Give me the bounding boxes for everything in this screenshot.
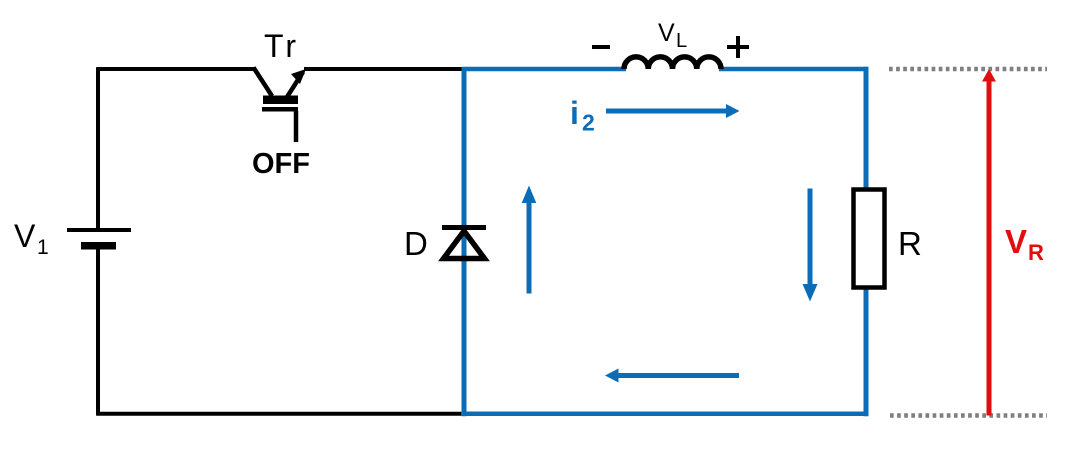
arrow up (diode branch current) shaft (527, 201, 532, 294)
transistor Tr emitter arrowhead (291, 69, 306, 84)
arrow i2 right head (726, 104, 740, 118)
wire: left vertical upper (battery top lead) (96, 68, 100, 229)
arrow VR red shaft (987, 79, 992, 416)
plus sign vertical (736, 36, 740, 58)
transistor Tr lower gate bar (262, 107, 298, 112)
svg-text:V: V (14, 218, 36, 254)
transistor Tr thick base bar (263, 96, 298, 105)
plus sign horizontal (727, 45, 749, 49)
svg-text:V: V (1005, 223, 1027, 260)
svg-text:D: D (404, 225, 428, 262)
wire: blue top from inductor to right corner (719, 67, 868, 72)
transistor Tr gate lead down (294, 111, 299, 142)
dotted gray line bottom (890, 413, 1047, 418)
battery V1 long plate (67, 228, 131, 232)
svg-text:R: R (1028, 240, 1044, 265)
svg-text:R: R (898, 225, 922, 262)
diode D cathode bar (442, 225, 486, 230)
dotted gray line top (889, 67, 1047, 72)
svg-text:2: 2 (582, 110, 595, 136)
wire: blue top from node to inductor (462, 67, 626, 72)
wire: blue middle vertical (diode branch) (462, 67, 467, 416)
arrow up head (522, 186, 537, 204)
svg-text:V: V (658, 19, 675, 47)
arrow i2 right shaft (606, 109, 727, 114)
svg-text:i: i (570, 95, 579, 131)
arrow left (bottom return current) shaft (618, 373, 739, 378)
minus sign (592, 45, 610, 49)
diode D triangle (444, 231, 485, 259)
inductor L arcs (624, 57, 721, 69)
wire: left vertical lower (battery bottom lead) (96, 249, 100, 416)
wire: top black from transistor to node at diode branch (304, 67, 464, 71)
transistor Tr emitter diagonal (287, 72, 303, 97)
battery V1 short thick plate (81, 242, 116, 250)
wire: top black from left corner to transistor (97, 67, 256, 71)
svg-text:OFF: OFF (252, 148, 310, 180)
svg-text:L: L (676, 30, 687, 52)
resistor R body (854, 190, 885, 288)
arrow VR red head (982, 69, 996, 82)
svg-text:1: 1 (37, 236, 49, 259)
arrow down (resistor current) shaft (808, 189, 813, 286)
wire: blue right vertical (864, 67, 869, 416)
transistor Q (Tr) collector diagonal (254, 68, 273, 97)
arrow down head (803, 284, 818, 302)
svg-text:Tr: Tr (264, 28, 299, 64)
wire: blue bottom (461, 412, 868, 417)
wire: bottom black (97, 412, 464, 416)
arrow left head (605, 369, 619, 383)
